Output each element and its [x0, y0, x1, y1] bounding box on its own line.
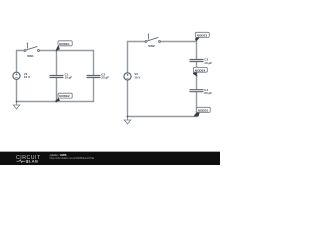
svg-text:NODE3: NODE3 [197, 33, 208, 37]
svg-text:20 µF: 20 µF [101, 76, 109, 80]
svg-text:10 V: 10 V [24, 75, 30, 79]
svg-text:NODE5: NODE5 [198, 108, 209, 112]
svg-text:LAB: LAB [29, 159, 38, 164]
svg-text:NODE4: NODE4 [195, 68, 206, 72]
svg-text:10 µF: 10 µF [65, 76, 73, 80]
svg-text:10 µF: 10 µF [204, 61, 212, 65]
svg-text:20 µF: 20 µF [204, 91, 212, 95]
svg-text:10 V: 10 V [134, 75, 140, 79]
svg-text:SW1: SW1 [27, 54, 34, 58]
svg-text:NODE1: NODE1 [59, 42, 70, 46]
svg-text:NODE2: NODE2 [59, 94, 70, 98]
svg-text:SW2: SW2 [148, 44, 155, 48]
svg-text:http://circuitlab.com/c3439/lu: http://circuitlab.com/c3439/luaz37de [50, 156, 95, 160]
